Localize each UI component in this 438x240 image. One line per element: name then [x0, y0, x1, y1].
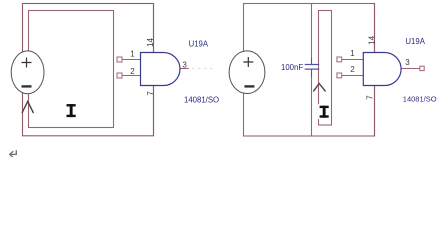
svg-text:100nF: 100nF: [281, 63, 303, 72]
svg-text:U19A: U19A: [405, 37, 425, 46]
svg-text:2: 2: [350, 65, 355, 74]
svg-text:14: 14: [146, 38, 155, 47]
svg-text:7: 7: [146, 91, 155, 96]
svg-text:14: 14: [367, 35, 376, 44]
svg-text:2: 2: [130, 67, 135, 76]
svg-text:3: 3: [405, 58, 410, 67]
svg-text:3: 3: [182, 61, 187, 70]
svg-text:U19A: U19A: [189, 39, 209, 48]
svg-text:7: 7: [366, 95, 375, 100]
svg-text:14081/SO: 14081/SO: [184, 96, 219, 105]
svg-text:1: 1: [130, 50, 135, 59]
svg-text:14081/SO: 14081/SO: [403, 95, 437, 104]
svg-text:1: 1: [350, 49, 355, 58]
